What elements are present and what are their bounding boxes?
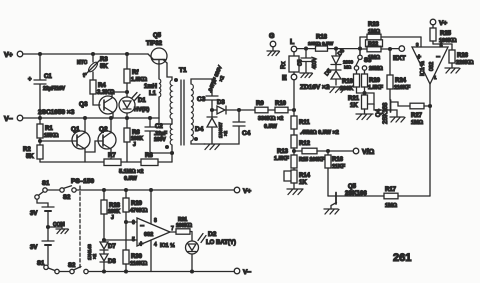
- resistor R10: [275, 101, 294, 113]
- op-amp U1a: [132, 218, 174, 248]
- terminal V+ PS: [234, 187, 251, 195]
- svg-text:5K: 5K: [100, 64, 108, 70]
- transistor Q3: [79, 92, 127, 118]
- svg-text:100KΩ: 100KΩ: [439, 38, 457, 44]
- svg-text:Q2: Q2: [99, 126, 108, 133]
- wire PS top rail right: [76, 189, 234, 191]
- svg-text:S2: S2: [68, 263, 76, 269]
- svg-text:D2: D2: [208, 231, 217, 238]
- ground R26: [445, 68, 460, 73]
- svg-text:15KΩ: 15KΩ: [44, 133, 59, 139]
- terminal EXT: [390, 46, 406, 62]
- svg-text:082: 082: [429, 62, 435, 71]
- wire inverting input a: [126, 221, 137, 223]
- node output R27: [429, 105, 432, 108]
- node COM tap: [47, 226, 50, 229]
- resistor R28: [101, 190, 121, 240]
- ground Q5 source: [324, 209, 339, 214]
- svg-text:1.5KF: 1.5KF: [368, 85, 384, 91]
- diode D3: [212, 100, 255, 114]
- dashed boundary: [79, 186, 81, 270]
- ground C5: [300, 73, 313, 78]
- switch S2 top: [60, 186, 76, 201]
- resistor R15: [294, 148, 353, 163]
- svg-text:HV(R): HV(R): [134, 107, 149, 113]
- svg-text:100K: 100K: [108, 209, 120, 215]
- terminal V-: [4, 115, 23, 123]
- svg-text:R27: R27: [411, 113, 423, 119]
- resistor R24: [387, 49, 411, 100]
- svg-text:20MΩ: 20MΩ: [369, 66, 383, 72]
- svg-text:1.5KΩ: 1.5KΩ: [131, 77, 148, 83]
- wire Q1 base: [40, 140, 77, 142]
- wire noninverting input a: [104, 239, 137, 241]
- svg-text:V+: V+: [439, 20, 447, 27]
- resistor R6: [124, 128, 143, 162]
- svg-text:1.5KF: 1.5KF: [274, 156, 290, 162]
- wire bottom rail: [40, 161, 172, 163]
- svg-text:110KΩ: 110KΩ: [130, 261, 148, 267]
- svg-text:R26: R26: [457, 53, 469, 59]
- svg-text:R24: R24: [395, 78, 407, 84]
- svg-text:8: 8: [154, 218, 157, 224]
- wire output a: [170, 231, 176, 234]
- node C5 top: [305, 47, 308, 50]
- svg-text:−: −: [140, 223, 144, 230]
- svg-text:1K: 1K: [299, 180, 307, 186]
- jfet Q5 2SK106: [328, 184, 384, 209]
- resistor R31: [176, 217, 192, 241]
- resistor R26: [449, 44, 474, 68]
- wire PS top rail: [47, 189, 60, 191]
- svg-text:L: L: [290, 39, 295, 46]
- wire top rail V+: [23, 53, 148, 55]
- svg-text:200K: 200K: [340, 86, 353, 92]
- svg-text:1: 1: [434, 75, 437, 80]
- svg-text:S1: S1: [42, 181, 50, 187]
- ground R21: [356, 114, 373, 120]
- node C1 top: [39, 53, 42, 56]
- resistor R20: [362, 70, 384, 95]
- wire pin4: [150, 240, 152, 272]
- svg-text:R15 100KF: R15 100KF: [299, 157, 325, 163]
- svg-text:R9: R9: [256, 101, 264, 107]
- svg-text:NTC: NTC: [77, 60, 88, 66]
- wire feedback to opamp output: [429, 84, 431, 196]
- capacitor C2: [145, 118, 172, 153]
- resistor R12: [291, 135, 311, 155]
- wire S3 common column: [359, 37, 361, 55]
- svg-text:D8: D8: [108, 259, 116, 265]
- resistor R30: [123, 222, 148, 272]
- svg-text:Q4: Q4: [376, 108, 382, 117]
- svg-text:1K: 1K: [350, 103, 358, 109]
- resistor R23: [360, 22, 421, 40]
- svg-text:R7: R7: [108, 153, 116, 159]
- op-amp U1b: [412, 42, 448, 84]
- svg-text:R25: R25: [440, 31, 452, 37]
- svg-text:11KF: 11KF: [332, 164, 346, 170]
- svg-text:IC1 ½: IC1 ½: [160, 242, 175, 249]
- svg-text:t°: t°: [83, 73, 87, 79]
- node R30 bottom rail: [125, 270, 128, 273]
- transistor Q1: [71, 118, 90, 162]
- svg-text:C1: C1: [44, 74, 52, 80]
- wire Q1 emitter to Q2 base: [85, 141, 103, 152]
- resistor R22: [360, 40, 390, 61]
- svg-text:10KΩ 0.5W: 10KΩ 0.5W: [308, 41, 334, 47]
- resistor R11: [291, 110, 310, 135]
- inductor L1 1mH: [144, 79, 161, 118]
- wire secondary bottom: [191, 141, 205, 144]
- svg-text:×2: ×2: [92, 253, 97, 259]
- trimmer R21: [348, 93, 374, 114]
- label 5.1Mohm x2 0.5W: [119, 169, 143, 182]
- ground zeners: [329, 87, 346, 93]
- svg-text:3V: 3V: [30, 245, 37, 251]
- wire R21 wiper to Q4 gate: [374, 104, 389, 110]
- resistor R17: [384, 187, 430, 209]
- svg-text:R21: R21: [348, 96, 360, 102]
- svg-text:D1: D1: [138, 98, 146, 104]
- svg-text:LO BAT(Y): LO BAT(Y): [206, 240, 236, 246]
- svg-text:R22: R22: [368, 41, 378, 47]
- svg-text:R2: R2: [23, 147, 31, 153]
- transistor Q5 TIP32: [146, 33, 167, 64]
- svg-text:V−: V−: [4, 116, 13, 123]
- node R29 R30 pin6: [125, 221, 128, 224]
- node pin8 top: [150, 189, 153, 192]
- wire PS bottom rail right: [88, 271, 234, 273]
- svg-text:400V: 400V: [312, 57, 318, 69]
- ground G: [267, 51, 280, 56]
- svg-text:22μF/16V: 22μF/16V: [43, 86, 66, 92]
- svg-text:220KΩ: 220KΩ: [456, 60, 474, 66]
- diode D7: [100, 240, 116, 254]
- svg-text:D7: D7: [108, 244, 116, 250]
- ground COM: [56, 229, 69, 234]
- label 330Kohm x2 0.5W: [258, 116, 283, 130]
- svg-text:1MΩ: 1MΩ: [411, 120, 424, 126]
- resistor R8: [141, 153, 158, 166]
- battery B1 3V: [30, 207, 54, 227]
- svg-text:R13: R13: [277, 149, 289, 155]
- svg-text:3: 3: [416, 42, 419, 47]
- node C3 D3 D4: [211, 109, 214, 112]
- wire secondary top: [191, 79, 212, 84]
- node Q3 collector: [126, 91, 129, 94]
- svg-text:470KΩ: 470KΩ: [130, 208, 148, 214]
- node C2 rail: [149, 117, 152, 120]
- svg-text:R19: R19: [342, 79, 354, 85]
- wire V- rail: [23, 117, 159, 119]
- node D8 bottom rail: [103, 270, 106, 273]
- svg-text:1MΩ: 1MΩ: [368, 29, 381, 35]
- terminal V/ohm: [353, 148, 374, 156]
- LED D2: [186, 231, 236, 272]
- node R20 R21: [363, 92, 366, 95]
- svg-text:EXT: EXT: [393, 55, 406, 62]
- ground R14: [287, 189, 303, 195]
- svg-text:C4: C4: [242, 130, 251, 137]
- resistor R29: [123, 190, 148, 222]
- terminal V+ opamp: [430, 19, 447, 27]
- svg-text:4: 4: [154, 242, 157, 248]
- svg-text:Q5: Q5: [153, 33, 162, 39]
- svg-text:1mH: 1mH: [144, 84, 157, 90]
- svg-text:V−: V−: [243, 269, 251, 276]
- node feedback C2 join: [171, 152, 174, 155]
- svg-text:IC1 ½: IC1 ½: [419, 61, 426, 76]
- node Rf top: [126, 53, 129, 56]
- svg-text:R8: R8: [145, 153, 153, 159]
- svg-text:L1: L1: [149, 91, 157, 97]
- node D1 rail: [126, 117, 129, 120]
- svg-text:2SC1959 ×3: 2SC1959 ×3: [38, 109, 75, 116]
- switch S1 bottom: [37, 261, 59, 274]
- wire R23 to noninverting input: [420, 37, 422, 47]
- node C4 top: [238, 109, 241, 112]
- svg-text:R20: R20: [369, 78, 381, 84]
- wire rail to feedback winding: [159, 118, 172, 124]
- switch S2 bottom: [68, 263, 88, 274]
- node E column R11: [293, 109, 296, 112]
- resistor R25: [430, 25, 457, 44]
- svg-text:R1: R1: [45, 126, 53, 132]
- svg-text:082: 082: [144, 232, 153, 238]
- svg-text:−: −: [436, 54, 440, 61]
- node S3 R18: [359, 47, 362, 50]
- node NTC top: [92, 53, 95, 56]
- wire COM: [48, 227, 62, 229]
- resistor R9: [255, 101, 275, 113]
- svg-text:T1: T1: [179, 67, 187, 74]
- transformer T1: [166, 67, 198, 162]
- svg-text:R11: R11: [299, 120, 310, 126]
- node Q1 collector rail: [84, 117, 87, 120]
- svg-text:.45MΩ 0.5W ×2: .45MΩ 0.5W ×2: [300, 130, 339, 136]
- terminal G: [269, 33, 276, 51]
- svg-text:R4: R4: [98, 83, 106, 89]
- jfet Q4 2SK168: [376, 100, 410, 124]
- label 1N4148 x2: [87, 244, 97, 260]
- node EXT R24: [389, 48, 392, 51]
- thermistor R3 NTC: [77, 54, 108, 80]
- wire pin8: [150, 190, 152, 224]
- node R28 D7 pin5: [103, 239, 106, 242]
- svg-text:R14: R14: [299, 173, 311, 179]
- resistor R7: [104, 153, 121, 166]
- capacitor C5: [298, 49, 319, 73]
- svg-text:Rf: Rf: [132, 70, 139, 76]
- svg-text:PS–150: PS–150: [71, 178, 95, 185]
- node zener top: [335, 47, 338, 50]
- capacitor C3: [197, 64, 226, 110]
- svg-text:C2: C2: [155, 124, 163, 130]
- svg-text:110KF: 110KF: [394, 85, 411, 91]
- resistor R19: [340, 70, 365, 93]
- wire D1 to R6: [126, 113, 128, 128]
- switch S1 top: [35, 181, 50, 199]
- svg-text:D3: D3: [217, 100, 225, 106]
- svg-text:5K: 5K: [26, 154, 34, 160]
- capacitor C1: [28, 54, 66, 118]
- svg-text:E: E: [282, 75, 287, 82]
- terminal E: [282, 74, 297, 110]
- terminal L: [290, 39, 297, 52]
- svg-text:R16: R16: [332, 157, 344, 163]
- wire inverting input: [433, 44, 452, 47]
- svg-text:C5: C5: [298, 59, 304, 66]
- resistor R1: [37, 118, 59, 145]
- wire Q5 emitter to primary: [167, 63, 172, 80]
- svg-text:D4: D4: [195, 126, 204, 133]
- svg-text:V+: V+: [243, 188, 251, 195]
- svg-text:7: 7: [171, 226, 174, 232]
- resistor R27: [410, 103, 430, 126]
- svg-text:+: +: [139, 241, 143, 248]
- ground Q4 source: [390, 117, 405, 122]
- zener D5: [324, 68, 341, 85]
- diode D8: [100, 254, 116, 272]
- svg-text:R12: R12: [299, 141, 311, 147]
- svg-text:COM: COM: [53, 222, 65, 228]
- svg-text:Q1: Q1: [71, 126, 80, 133]
- wire PS bottom rail: [59, 271, 70, 273]
- wire battery column top: [37, 199, 48, 207]
- ground rectifier: [204, 144, 220, 150]
- svg-text:2SK106: 2SK106: [345, 191, 367, 197]
- terminal V+: [4, 51, 23, 59]
- svg-text:100KΩ: 100KΩ: [176, 223, 192, 229]
- svg-text:R10: R10: [275, 101, 287, 107]
- svg-text:C3: C3: [197, 96, 206, 103]
- svg-text:MΩ: MΩ: [344, 65, 352, 70]
- svg-text:×2: ×2: [218, 75, 226, 83]
- node C1 bottom: [39, 117, 42, 120]
- svg-text:V+: V+: [4, 52, 13, 59]
- svg-text:Q3: Q3: [79, 101, 88, 108]
- resistor Rf: [124, 54, 148, 97]
- node R16 top: [327, 150, 330, 153]
- switch S3: [343, 49, 383, 72]
- node Q2 collector rail: [110, 117, 113, 120]
- svg-text:V/Ω: V/Ω: [362, 149, 375, 156]
- svg-text:1MΩ: 1MΩ: [385, 203, 398, 209]
- zener D6: [331, 48, 346, 70]
- svg-text:J: J: [133, 142, 136, 148]
- wire L to R18: [297, 48, 316, 50]
- svg-text:1MΩ: 1MΩ: [368, 55, 381, 61]
- resistor R18: [308, 35, 360, 52]
- svg-text:100V: 100V: [154, 137, 166, 143]
- transistor Q2: [98, 118, 116, 159]
- trimmer R14: [284, 170, 311, 189]
- svg-text:R3: R3: [100, 57, 108, 63]
- svg-text:J: J: [111, 215, 114, 221]
- svg-text:2SK168: 2SK168: [383, 102, 389, 124]
- svg-text:R18: R18: [316, 35, 328, 41]
- svg-text:261: 261: [393, 252, 411, 264]
- resistor R16: [325, 151, 346, 196]
- diode D4: [195, 110, 228, 144]
- node R12 R15 R13: [293, 150, 296, 153]
- svg-text:TIP32: TIP32: [146, 41, 163, 47]
- svg-text:Rx: Rx: [281, 62, 287, 69]
- svg-text:ZD16V ×2: ZD16V ×2: [300, 84, 330, 91]
- LED D1 HV(R): [119, 93, 149, 114]
- terminal V- PS: [234, 268, 251, 276]
- svg-text:330KΩ ×2: 330KΩ ×2: [258, 116, 283, 122]
- svg-text:×2: ×2: [223, 130, 228, 136]
- svg-text:0.5W: 0.5W: [124, 176, 138, 182]
- resistor R4: [90, 80, 115, 105]
- svg-text:0.5W: 0.5W: [264, 124, 278, 130]
- capacitor C4: [220, 110, 251, 144]
- resistor Rx box: [281, 52, 299, 74]
- resistor R2: [23, 145, 43, 162]
- svg-text:5.1MΩ ×2: 5.1MΩ ×2: [119, 169, 143, 175]
- svg-text:3V: 3V: [30, 211, 37, 217]
- node D2 bottom rail: [191, 270, 194, 273]
- node R1 R2: [39, 140, 42, 143]
- svg-text:6: 6: [132, 220, 135, 226]
- resistor R13: [274, 149, 297, 170]
- svg-text:+: +: [28, 77, 32, 83]
- svg-text:Q5: Q5: [348, 184, 357, 190]
- svg-text:R17: R17: [385, 187, 397, 193]
- svg-text:R30: R30: [131, 254, 143, 260]
- svg-text:+: +: [417, 54, 421, 61]
- node R28 top: [103, 189, 106, 192]
- svg-text:S2: S2: [63, 195, 71, 201]
- node R29 top: [125, 189, 128, 192]
- wire Q5 collector: [158, 64, 160, 79]
- battery B2 3V: [30, 227, 54, 265]
- svg-text:R23: R23: [368, 22, 380, 28]
- svg-text:R29: R29: [131, 201, 143, 207]
- svg-text:G: G: [269, 33, 275, 40]
